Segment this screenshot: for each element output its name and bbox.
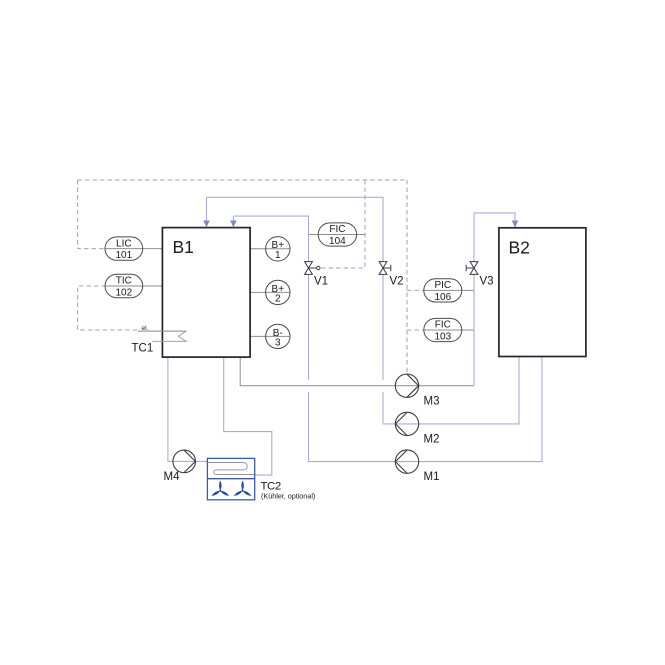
cooler TC2 box xyxy=(207,458,254,499)
signal wire: dashed TIC 102 to heater TC1 xyxy=(78,286,138,330)
instrument LIC 101 xyxy=(105,237,143,261)
arrow into B2 from V3 riser xyxy=(512,221,519,228)
pump M3 xyxy=(395,374,418,397)
wire: FIC 103 tap on V3 pipe xyxy=(424,329,474,331)
pipe: cooler TC2 return to tank B1 xyxy=(224,357,272,475)
signal wire: dashed drop to valve V1 actuator xyxy=(321,180,365,268)
svg-text:TIC: TIC xyxy=(116,276,132,287)
wire: electrode B+ 2 to tank B1 xyxy=(250,291,290,293)
electrode B+ 1 xyxy=(266,237,290,262)
svg-text:FIC: FIC xyxy=(329,224,345,235)
cooler TC2 fan right xyxy=(233,480,252,497)
svg-text:TC1: TC1 xyxy=(132,343,154,355)
svg-text:104: 104 xyxy=(329,236,346,247)
svg-text:3: 3 xyxy=(275,338,281,349)
wire: electrode B+ 1 to tank B1 xyxy=(250,248,290,250)
wire: FIC 104 tap on V1 pipe xyxy=(309,234,366,236)
pipe: B1 bottom to pump M4 into cooler TC2 xyxy=(168,357,208,461)
heater TC1 element inside B1 xyxy=(138,330,186,332)
svg-text:V1: V1 xyxy=(314,276,328,288)
svg-text:M1: M1 xyxy=(424,471,440,483)
pipe: B1 bottom to pump M3 to valve V3 xyxy=(240,357,474,386)
pipe: valve V3 riser into tank B2 xyxy=(474,213,515,386)
tank B1 xyxy=(162,228,250,358)
svg-text:101: 101 xyxy=(115,250,132,261)
valve V2 xyxy=(379,262,391,275)
svg-text:B2: B2 xyxy=(509,238,530,258)
signal wire: dashed branch to FIC 103 xyxy=(407,329,424,331)
svg-text:LIC: LIC xyxy=(116,238,132,249)
instrument FIC 103 xyxy=(424,318,462,342)
valve V1 xyxy=(305,262,320,275)
svg-text:B1: B1 xyxy=(173,237,194,257)
pipe: line A from B1 top feed via valve V2 to pump M2 and B2 xyxy=(207,197,520,424)
pipe: line B from B1 top feed via valve V1 to pump M1 and B2 xyxy=(233,216,542,462)
valve V3 xyxy=(466,262,478,275)
cooler TC2 coil xyxy=(207,462,254,474)
cooler TC2 fan left xyxy=(211,480,230,497)
tank B2 xyxy=(499,228,586,357)
svg-text:PIC: PIC xyxy=(434,280,451,291)
svg-text:el.: el. xyxy=(142,325,149,332)
wire: PIC 106 tap on V3 pipe xyxy=(424,289,474,291)
pump M2 xyxy=(395,412,418,435)
svg-text:103: 103 xyxy=(434,332,451,343)
svg-text:102: 102 xyxy=(115,288,132,299)
svg-text:FIC: FIC xyxy=(435,320,451,331)
svg-text:M3: M3 xyxy=(424,396,440,408)
instrument TIC 102 xyxy=(105,274,143,298)
arrow into B1 from line B xyxy=(230,221,237,228)
svg-text:M2: M2 xyxy=(424,433,440,445)
arrow into B1 from line A xyxy=(203,221,210,228)
svg-text:2: 2 xyxy=(275,294,281,305)
electrode B+ 2 xyxy=(266,280,290,305)
svg-text:1: 1 xyxy=(275,250,281,261)
signal wire: dashed bus drop to pump M3 xyxy=(406,180,408,374)
svg-text:M4: M4 xyxy=(164,471,181,483)
instrument PIC 106 xyxy=(424,279,462,303)
electrode B- 3 xyxy=(266,324,290,349)
signal wire: dashed branch to PIC 106 xyxy=(407,289,424,291)
signal wire: dashed drop to LIC 101 xyxy=(78,180,105,249)
pump M1 xyxy=(395,450,418,473)
wire: LIC 101 to tank B1 xyxy=(105,248,162,250)
wire: electrode B- 3 to tank B1 xyxy=(250,335,290,337)
wire: TIC 102 to tank B1 xyxy=(105,285,162,287)
signal wire: dashed top run xyxy=(78,179,407,181)
svg-text:V3: V3 xyxy=(480,276,494,288)
instrument FIC 104 xyxy=(318,223,356,247)
svg-text:TC2: TC2 xyxy=(261,480,281,492)
svg-text:106: 106 xyxy=(434,292,451,303)
svg-text:V2: V2 xyxy=(390,276,404,288)
svg-text:(Kühler, optional): (Kühler, optional) xyxy=(261,492,315,501)
pump M4 xyxy=(173,450,196,473)
